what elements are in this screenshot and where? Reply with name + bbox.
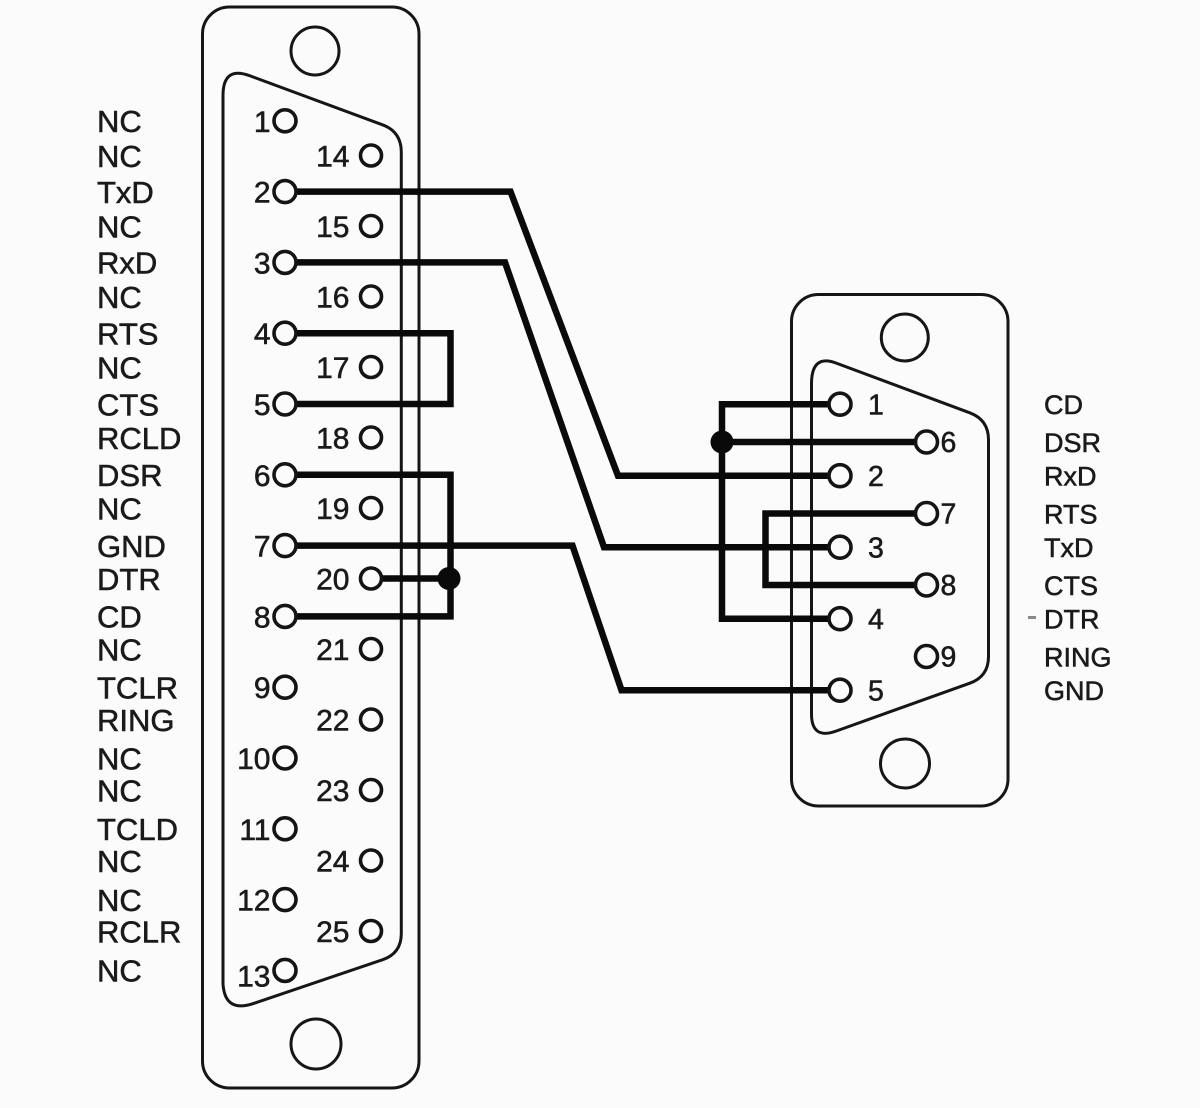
svg-text:21: 21 xyxy=(316,634,349,667)
DB25 pin 21 xyxy=(361,639,382,660)
svg-text:1: 1 xyxy=(254,106,271,139)
DB25 pin 13 xyxy=(274,959,296,981)
wire TxD: DB25 pin2 to DB9 pin2 xyxy=(297,192,829,476)
svg-text:11: 11 xyxy=(239,814,270,847)
svg-text:NC: NC xyxy=(97,280,142,315)
svg-text:RCLR: RCLR xyxy=(97,914,181,949)
DB25 pin 14 xyxy=(361,145,382,166)
wire stub DB25 pin20 (DTR) to loop xyxy=(382,575,451,582)
svg-text:TxD: TxD xyxy=(97,175,154,210)
DB9 top mounting hole xyxy=(881,314,928,361)
svg-text:GND: GND xyxy=(1044,676,1104,706)
DB9 pin 6 xyxy=(916,431,938,453)
DB9 pin 9 xyxy=(916,646,938,668)
DB9 pin 4 xyxy=(829,608,851,630)
scan artifact dash left of DTR xyxy=(1028,616,1036,619)
svg-text:25: 25 xyxy=(316,916,349,949)
svg-text:NC: NC xyxy=(97,350,142,385)
DB25 bottom mounting hole xyxy=(291,1019,341,1069)
DB25 pin 12 xyxy=(274,889,296,911)
DB9 pin 5 xyxy=(829,679,851,701)
DB9 bottom mounting hole xyxy=(881,739,930,788)
svg-text:24: 24 xyxy=(316,846,349,879)
svg-text:NC: NC xyxy=(97,741,142,776)
svg-text:5: 5 xyxy=(868,675,884,707)
DB25 pin 1 xyxy=(274,110,296,132)
wire loop DB9 pin7 to pin8 (RTS-CTS) xyxy=(766,514,916,586)
svg-text:NC: NC xyxy=(97,209,142,244)
DB25 D-sub face trapezoid xyxy=(223,73,401,1006)
svg-text:CTS: CTS xyxy=(1044,571,1098,601)
svg-text:18: 18 xyxy=(316,423,349,456)
svg-text:6: 6 xyxy=(254,460,271,493)
DB25 pin 20 xyxy=(361,568,382,589)
svg-text:2: 2 xyxy=(254,177,271,210)
svg-text:CTS: CTS xyxy=(97,387,159,422)
DB25 pin 8 xyxy=(274,605,296,627)
svg-text:NC: NC xyxy=(97,104,142,139)
svg-text:DSR: DSR xyxy=(97,458,162,493)
svg-text:13: 13 xyxy=(237,961,270,994)
DB9 pin 7 xyxy=(916,503,938,525)
svg-text:1: 1 xyxy=(868,389,884,421)
svg-text:9: 9 xyxy=(941,642,957,674)
DB25 pin 25 xyxy=(361,921,382,942)
svg-text:NC: NC xyxy=(97,954,142,989)
svg-text:12: 12 xyxy=(237,885,270,918)
DB25 pin 15 xyxy=(361,216,382,237)
DB25 pin 18 xyxy=(361,427,382,448)
svg-text:4: 4 xyxy=(254,318,271,351)
wire GND: DB25 pin7 to DB9 pin5 xyxy=(297,546,829,691)
wire bus DB9 pin1 to pin4 (CD-DTR) xyxy=(722,404,828,619)
svg-text:16: 16 xyxy=(316,282,349,315)
wire RxD: DB25 pin3 to DB9 pin3 xyxy=(297,262,829,547)
svg-text:4: 4 xyxy=(868,604,884,636)
svg-text:23: 23 xyxy=(316,775,349,808)
svg-text:NC: NC xyxy=(97,632,142,667)
DB25 top mounting hole xyxy=(291,27,339,75)
svg-text:GND: GND xyxy=(97,529,166,564)
svg-text:3: 3 xyxy=(868,532,884,564)
svg-text:NC: NC xyxy=(97,773,142,808)
DB25 pin 11 xyxy=(274,818,296,840)
DB25 pin 3 xyxy=(274,251,296,273)
junction dot DB9 pin6 net xyxy=(711,431,734,454)
svg-text:RCLD: RCLD xyxy=(97,421,181,456)
svg-text:RING: RING xyxy=(1044,642,1112,672)
junction dot DB25 pin20 net xyxy=(438,567,461,590)
svg-text:15: 15 xyxy=(316,211,349,244)
svg-text:RTS: RTS xyxy=(1044,499,1098,529)
DB9 pin 3 xyxy=(829,536,851,558)
wire loop DB25 pin6 to pin8 (DSR-CD) xyxy=(297,475,451,617)
svg-text:RING: RING xyxy=(97,703,175,738)
DB25 pin 19 xyxy=(361,498,382,519)
svg-text:10: 10 xyxy=(237,743,270,776)
DB25 pin 23 xyxy=(361,780,382,801)
svg-text:NC: NC xyxy=(97,139,142,174)
DB25 pin 5 xyxy=(274,393,296,415)
DB25 pin 16 xyxy=(361,286,382,307)
wire loop DB25 pin4 to pin5 (RTS-CTS) xyxy=(297,333,451,404)
svg-text:NC: NC xyxy=(97,883,142,918)
svg-text:TxD: TxD xyxy=(1044,533,1094,563)
svg-text:8: 8 xyxy=(254,601,271,634)
svg-text:6: 6 xyxy=(941,427,957,459)
svg-text:19: 19 xyxy=(316,493,349,526)
svg-text:9: 9 xyxy=(254,672,271,705)
svg-text:RxD: RxD xyxy=(97,246,157,281)
DB9 D-sub face trapezoid xyxy=(812,361,989,733)
DB25 pin 9 xyxy=(274,676,296,698)
svg-text:CD: CD xyxy=(1044,390,1083,420)
DB25 pin 7 xyxy=(274,535,296,557)
svg-text:RxD: RxD xyxy=(1044,462,1097,492)
DB25 pin 4 xyxy=(274,322,296,344)
svg-text:DTR: DTR xyxy=(97,562,161,597)
svg-text:NC: NC xyxy=(97,844,142,879)
svg-text:RTS: RTS xyxy=(97,317,158,352)
svg-text:NC: NC xyxy=(97,491,142,526)
DB9 pin 1 xyxy=(829,393,851,415)
svg-text:CD: CD xyxy=(97,600,142,635)
DB25 pin 6 xyxy=(274,464,296,486)
DB25 pin 2 xyxy=(274,181,296,203)
DB9 connector J2 outer shell xyxy=(792,295,1009,807)
DB25 pin 22 xyxy=(361,709,382,730)
DB25 connector J1 outer shell xyxy=(203,7,420,1088)
svg-text:DTR: DTR xyxy=(1044,605,1100,635)
svg-text:20: 20 xyxy=(316,564,349,597)
DB9 pin 8 xyxy=(916,574,938,596)
svg-text:TCLR: TCLR xyxy=(97,671,178,706)
svg-text:2: 2 xyxy=(868,461,884,493)
svg-text:3: 3 xyxy=(254,247,271,280)
svg-text:5: 5 xyxy=(254,389,271,422)
DB25 pin 10 xyxy=(274,747,296,769)
svg-text:7: 7 xyxy=(941,499,957,531)
DB9 pin 2 xyxy=(829,465,851,487)
svg-text:17: 17 xyxy=(316,352,349,385)
wire stub DB9 pin6 (DSR) to bus xyxy=(722,439,915,446)
svg-text:8: 8 xyxy=(941,570,957,602)
svg-text:TCLD: TCLD xyxy=(97,812,178,847)
DB25 pin 17 xyxy=(361,357,382,378)
svg-text:14: 14 xyxy=(316,141,349,174)
svg-text:7: 7 xyxy=(254,531,271,564)
svg-text:22: 22 xyxy=(316,705,349,738)
DB25 pin 24 xyxy=(361,850,382,871)
svg-text:DSR: DSR xyxy=(1044,428,1101,458)
